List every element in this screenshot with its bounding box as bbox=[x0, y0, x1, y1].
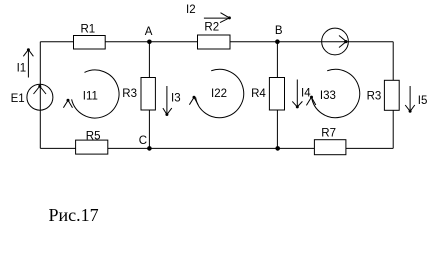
resistor R3 (right) bbox=[367, 80, 400, 110]
wire top bbox=[40, 41, 393, 43]
svg-text:I22: I22 bbox=[211, 88, 227, 100]
wire left bbox=[39, 42, 41, 149]
resistor R3 (middle) bbox=[122, 78, 155, 111]
svg-text:A: A bbox=[145, 26, 153, 38]
svg-text:Рис.17: Рис.17 bbox=[49, 205, 99, 225]
svg-text:R7: R7 bbox=[321, 128, 336, 140]
current arrow I5 bbox=[405, 86, 427, 113]
svg-text:R3: R3 bbox=[367, 91, 382, 103]
node A bbox=[145, 26, 153, 44]
current arrow I3 bbox=[163, 86, 181, 116]
resistor R4 bbox=[251, 78, 284, 111]
svg-text:R3: R3 bbox=[122, 88, 137, 100]
svg-text:I11: I11 bbox=[83, 90, 98, 102]
current arrow I1 bbox=[17, 48, 34, 77]
wire bottom bbox=[40, 147, 393, 149]
source E1 bbox=[11, 84, 53, 110]
svg-text:R4: R4 bbox=[251, 88, 266, 100]
node B bbox=[275, 25, 283, 44]
svg-text:B: B bbox=[275, 25, 283, 37]
resistor R7 bbox=[314, 128, 346, 155]
svg-text:C: C bbox=[139, 135, 147, 147]
current arrow I2 bbox=[186, 4, 231, 23]
svg-text:I4: I4 bbox=[301, 88, 311, 100]
wire right bbox=[392, 42, 394, 149]
resistor R5 bbox=[76, 130, 108, 154]
svg-text:E1: E1 bbox=[11, 93, 25, 105]
wire B-bottom bbox=[276, 42, 278, 149]
resistor R1 bbox=[74, 23, 106, 49]
wire A-C bbox=[148, 42, 150, 149]
svg-text:R5: R5 bbox=[86, 130, 101, 142]
svg-text:R1: R1 bbox=[81, 23, 96, 35]
svg-text:R2: R2 bbox=[204, 22, 219, 34]
svg-text:I1: I1 bbox=[17, 62, 27, 74]
current source (top right) bbox=[322, 28, 349, 55]
resistor R2 bbox=[198, 22, 231, 49]
svg-text:I3: I3 bbox=[171, 92, 181, 104]
svg-text:I5: I5 bbox=[418, 95, 428, 107]
svg-text:I33: I33 bbox=[320, 90, 336, 102]
node C bbox=[139, 135, 152, 151]
svg-text:I2: I2 bbox=[186, 4, 196, 16]
junction below B bbox=[275, 146, 280, 151]
mesh arrow I11 bbox=[63, 70, 119, 118]
mesh arrow I33 bbox=[306, 69, 359, 117]
mesh arrow I22 bbox=[189, 69, 243, 117]
current arrow I4 bbox=[292, 80, 311, 109]
